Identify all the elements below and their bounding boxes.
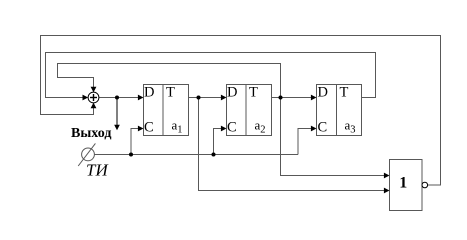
D flip-flop a3 xyxy=(317,85,362,136)
arrow into NOR gate lower input xyxy=(384,188,390,194)
svg-text:C: C xyxy=(227,120,237,136)
arrow into C of a3 xyxy=(311,126,317,132)
junction dot: a1 output tee xyxy=(197,96,201,100)
svg-text:1: 1 xyxy=(399,175,407,192)
svg-text:T: T xyxy=(166,85,175,101)
arrow into C of a1 xyxy=(138,126,144,132)
svg-text:C: C xyxy=(318,120,328,136)
junction dot: clock to C1 xyxy=(129,153,133,157)
label TI xyxy=(86,161,109,180)
arrow: Vyhod output down xyxy=(114,125,120,131)
junction dot: XOR output / Vyhod tee xyxy=(115,96,119,100)
arrow into D of a1 xyxy=(138,95,144,101)
wire: outer feedback loop (NOR output to XOR bottom) xyxy=(41,36,441,186)
XOR adder (modulo-2) xyxy=(88,92,99,103)
svg-text:T: T xyxy=(340,85,349,101)
wire: XOR output to D input of a1 xyxy=(99,97,143,99)
wire: clock line from TI generator xyxy=(94,154,298,156)
wire: inner feedback loop (a2 output to XOR top) xyxy=(58,64,281,98)
clock generator TI xyxy=(78,143,95,166)
wire: clock branch to C input of a2 xyxy=(214,129,226,155)
arrow into D of a2 xyxy=(221,95,227,101)
arrow into XOR left xyxy=(83,95,89,101)
junction dot: clock to C2 xyxy=(212,153,216,157)
svg-text:D: D xyxy=(227,85,237,101)
arrow into XOR bottom xyxy=(91,103,97,109)
label Vyhod xyxy=(71,126,111,141)
arrow into NOR gate upper input xyxy=(384,173,390,179)
wire: clock branch to C input of a1 xyxy=(131,129,143,155)
wire: a2 output to D input of a3 xyxy=(272,97,316,99)
arrow into XOR top xyxy=(91,87,97,93)
svg-text:D: D xyxy=(144,85,154,101)
wire: middle feedback loop (a3 output to XOR left) xyxy=(46,53,376,98)
svg-text:C: C xyxy=(144,120,154,136)
svg-text:ТИ: ТИ xyxy=(86,161,109,180)
wire: a2 output down to NOR gate upper input xyxy=(281,98,389,176)
wire: a1 output down to NOR gate lower input xyxy=(199,98,389,191)
wire: a1 output to D input of a2 xyxy=(189,97,226,99)
wire: clock branch to C input of a3 xyxy=(298,129,316,155)
D flip-flop a1 xyxy=(144,85,189,136)
wire: Vyhod output branch down xyxy=(116,98,118,126)
junction dot: a2 output cross xyxy=(279,96,283,100)
arrow into D of a3 xyxy=(311,95,317,101)
NOR gate 1 xyxy=(390,160,428,211)
svg-text:D: D xyxy=(318,85,328,101)
D flip-flop a2 xyxy=(227,85,272,136)
svg-text:T: T xyxy=(249,85,258,101)
arrow into C of a2 xyxy=(221,126,227,132)
svg-text:Выход: Выход xyxy=(71,126,111,141)
